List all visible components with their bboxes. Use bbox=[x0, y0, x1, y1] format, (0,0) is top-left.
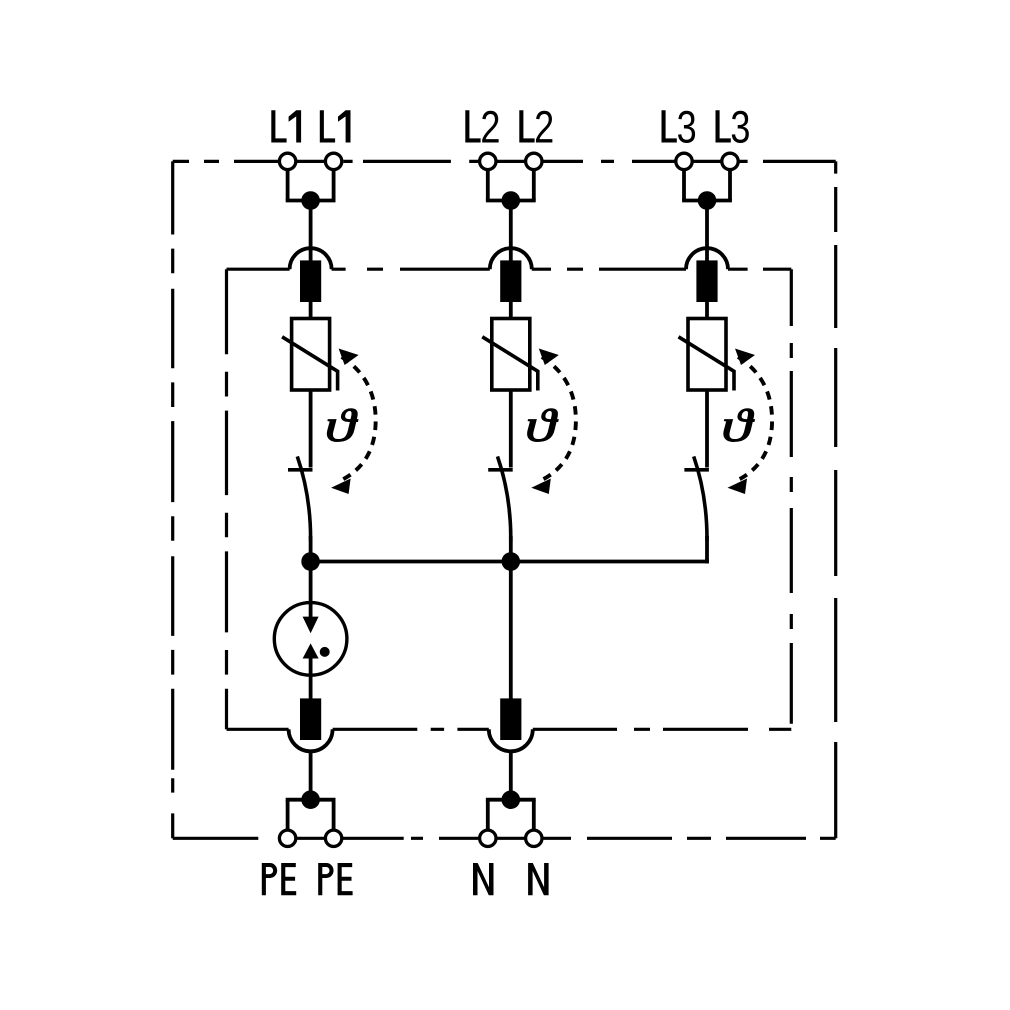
terminal L2 right bbox=[526, 153, 542, 169]
spark gap lower electrode line bbox=[309, 658, 313, 675]
wire L1 terminal bracket right leg bbox=[332, 170, 336, 201]
terminal PE left bbox=[279, 830, 295, 846]
wire L3 terminal bracket right leg bbox=[728, 170, 732, 201]
wire N arc to bottom bracket bbox=[509, 751, 513, 800]
wire bus to spark gap bbox=[309, 562, 313, 605]
wire L3 terminal bracket left leg bbox=[682, 170, 686, 201]
spark gap lower electrode arrowhead (up) bbox=[303, 643, 319, 658]
thermal disconnect switch L3 contact bar bbox=[684, 468, 709, 472]
disconnector arc L3 bbox=[686, 248, 728, 269]
node L1 terminal junction dot bbox=[301, 191, 320, 210]
svg-text:2: 2 bbox=[480, 101, 500, 152]
node PE bottom junction dot bbox=[301, 790, 320, 809]
svg-text:ϑ: ϑ bbox=[721, 399, 755, 451]
varistor L2 diagonal stroke bbox=[482, 337, 538, 391]
wire L2 disconnector to varistor bbox=[509, 302, 513, 319]
spark gap F1 circle bbox=[274, 603, 347, 676]
wire L1 switch to bus node bbox=[309, 536, 313, 562]
label L2 L2 bbox=[465, 101, 554, 152]
outer enclosure border top edge bbox=[173, 160, 836, 163]
label PE PE bbox=[262, 863, 353, 895]
inner enclosure border left edge bbox=[225, 269, 228, 729]
arrowhead top L3 bbox=[735, 349, 755, 366]
thermal disconnect switch L2 blade bbox=[498, 456, 511, 541]
wire L3 disconnector to varistor bbox=[705, 302, 709, 319]
wire L3 down to disconnector bbox=[705, 201, 709, 265]
wire PE arc to bottom bracket bbox=[309, 751, 313, 800]
thermal disconnect switch L2 contact bar bbox=[488, 468, 513, 472]
wire N bracket left leg bbox=[486, 800, 490, 830]
arrowhead bottom L3 bbox=[728, 479, 748, 495]
spark gap upper electrode arrowhead (down) bbox=[303, 617, 319, 634]
disconnector arc L2 bbox=[490, 248, 532, 269]
label L1 L1 bbox=[271, 110, 350, 142]
thermal trip dashed arrow arc L3 bbox=[736, 357, 772, 481]
terminal L3 right bbox=[722, 153, 738, 169]
wire L2 terminal bracket bar bbox=[486, 199, 536, 203]
wire L1 terminal bracket left leg bbox=[286, 170, 290, 201]
wire N from above to lower disconnector bbox=[509, 562, 513, 700]
terminal N right bbox=[526, 830, 542, 846]
lower disconnector arc PE bbox=[289, 729, 333, 751]
inner enclosure border bottom edge bbox=[227, 728, 792, 731]
terminal L2 left bbox=[480, 153, 496, 169]
disconnector arc L1 bbox=[290, 248, 332, 269]
thermal trip dashed arrow arc L1 bbox=[340, 357, 376, 481]
varistor L1 body bbox=[292, 319, 330, 391]
inner enclosure border top edge (bus through disconnectors) bbox=[227, 268, 792, 271]
arrowhead top L1 bbox=[339, 349, 359, 366]
wire L2 switch to bus node bbox=[509, 536, 513, 562]
node bus junction dot L2 bbox=[502, 552, 521, 571]
spark gap trigger dot bbox=[320, 647, 330, 657]
arrowhead bottom L2 bbox=[531, 479, 551, 495]
inner enclosure border right edge bbox=[790, 269, 793, 724]
wire PE bracket right leg bbox=[332, 800, 336, 830]
wire N bracket right leg bbox=[532, 800, 536, 830]
disconnector fuse body L2 (filled) bbox=[500, 260, 521, 302]
wire L1 disconnector to varistor bbox=[309, 302, 313, 319]
thermal disconnect switch L1 blade bbox=[297, 456, 310, 541]
wire L2 varistor to thermal switch bbox=[509, 390, 513, 468]
wire L2 terminal bracket left leg bbox=[486, 170, 490, 201]
wire PE bracket left leg bbox=[286, 800, 290, 830]
node L2 terminal junction dot bbox=[502, 191, 521, 210]
thermal disconnect switch L1 contact bar bbox=[288, 468, 313, 472]
terminal L1 left bbox=[279, 153, 295, 169]
wire L2 terminal bracket right leg bbox=[532, 170, 536, 201]
disconnector fuse body L3 (filled) bbox=[696, 260, 717, 302]
varistor L1 diagonal stroke bbox=[282, 337, 338, 391]
varistor L3 diagonal stroke bbox=[679, 337, 735, 391]
arrowhead top L2 bbox=[539, 349, 559, 366]
wire L1 varistor to thermal switch bbox=[309, 390, 313, 468]
svg-text:2: 2 bbox=[534, 101, 554, 152]
wire L3 varistor to thermal switch bbox=[705, 390, 709, 468]
svg-text:ϑ: ϑ bbox=[325, 399, 359, 451]
wire L1 terminal bracket bar bbox=[286, 199, 336, 203]
node N bottom junction dot bbox=[502, 790, 521, 809]
terminal L1 right bbox=[325, 153, 341, 169]
wire L3 terminal bracket bar bbox=[682, 199, 732, 203]
terminal L3 left bbox=[676, 153, 692, 169]
varistor L3 body bbox=[688, 319, 726, 391]
terminal PE right bbox=[325, 830, 341, 846]
terminal N left bbox=[480, 830, 496, 846]
wire L3 switch down to bus corner bbox=[705, 536, 709, 563]
arrowhead bottom L1 bbox=[331, 479, 351, 495]
wire L2 down to disconnector bbox=[509, 201, 513, 265]
wire PE bottom bracket bar bbox=[286, 798, 336, 802]
thermal trip dashed arrow arc L2 bbox=[540, 357, 576, 481]
outer enclosure border left edge bbox=[171, 161, 174, 838]
outer enclosure border bottom edge bbox=[173, 837, 836, 840]
common bus wire bbox=[311, 560, 709, 564]
label L3 L3 bbox=[662, 101, 751, 152]
disconnector fuse body L1 (filled) bbox=[300, 260, 321, 302]
svg-text:ϑ: ϑ bbox=[525, 399, 559, 451]
wire PE from above to lower disconnector bbox=[309, 675, 313, 700]
label N N bbox=[473, 863, 549, 895]
node L3 terminal junction dot bbox=[698, 191, 717, 210]
thermal disconnect switch L3 blade bbox=[694, 456, 707, 541]
spark gap upper electrode line bbox=[309, 603, 313, 619]
lower disconnector fuse body PE (filled) bbox=[300, 698, 321, 740]
varistor L2 body bbox=[492, 319, 530, 391]
lower disconnector fuse body N (filled) bbox=[500, 698, 521, 740]
node bus junction dot L1 bbox=[301, 552, 320, 571]
wire N bottom bracket bar bbox=[486, 798, 536, 802]
svg-text:3: 3 bbox=[677, 101, 697, 152]
lower disconnector arc N bbox=[489, 729, 533, 751]
wire L1 down to disconnector bbox=[309, 201, 313, 265]
outer enclosure border right edge bbox=[834, 161, 837, 838]
svg-text:3: 3 bbox=[730, 101, 750, 152]
